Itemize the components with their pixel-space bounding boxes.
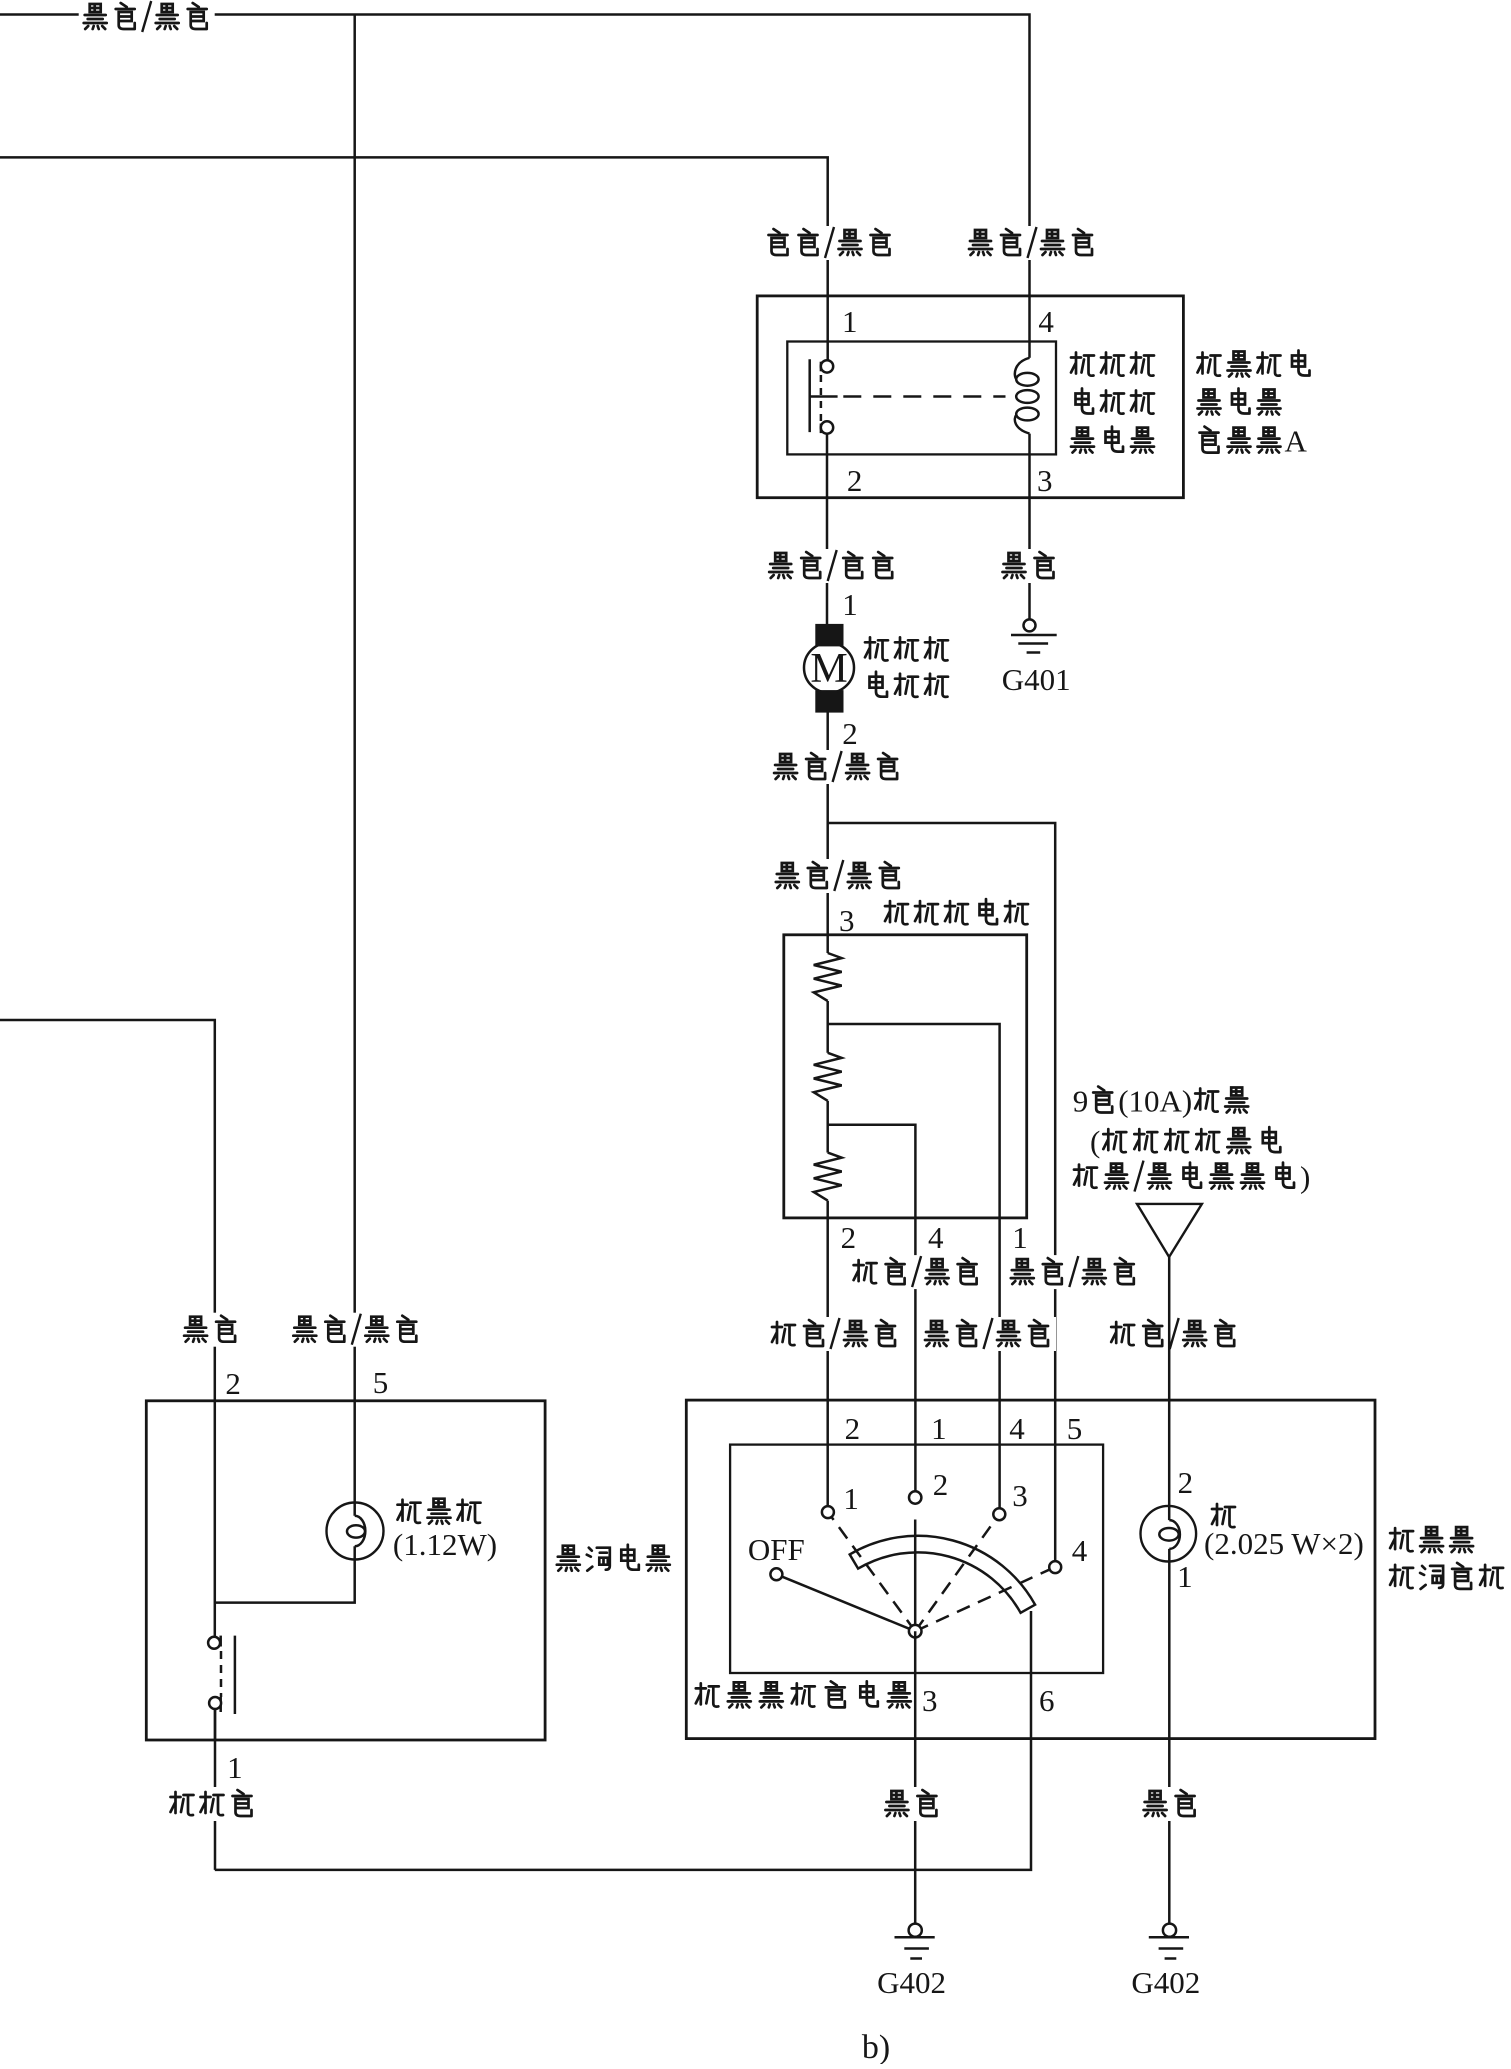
label 黑色/蓝色 — [964, 226, 1100, 260]
rotary wiper arc band — [850, 1536, 1035, 1613]
wire relay pin 4 to coil — [1028, 296, 1031, 358]
wire lamp to ground — [1168, 1549, 1171, 1924]
relay armature T bar — [810, 395, 838, 398]
dashed wiper to contact 3 — [915, 1514, 999, 1631]
label 蓝色/黑色 (motor out) — [769, 750, 905, 784]
dashed wiper to contact 1 — [828, 1512, 915, 1631]
relay contact upper circle — [821, 360, 833, 372]
ground G401 — [1024, 619, 1036, 631]
svg-text:2: 2 — [842, 716, 858, 751]
svg-text:2: 2 — [841, 1220, 857, 1255]
svg-text:3: 3 — [1012, 1478, 1027, 1513]
wire relay pin 1 to contact — [826, 296, 829, 360]
blower motor M1 circle — [804, 643, 854, 693]
svg-text:2: 2 — [933, 1467, 949, 1502]
label 指示灯 — [398, 1500, 421, 1523]
relay fixed bar — [808, 359, 811, 432]
svg-text:6: 6 — [1039, 1683, 1055, 1718]
label 鼓风机电阻 (resistor title) — [885, 901, 908, 924]
heater fan switch box 加热器风扇开关 — [730, 1445, 1103, 1673]
switch contact 1 circle — [822, 1506, 834, 1518]
wire A/C pin 1 down — [214, 1709, 217, 1870]
wire motor to branch and resistor pin 3 — [826, 712, 829, 953]
svg-text:4: 4 — [1038, 304, 1054, 339]
relay contact lower circle — [821, 421, 833, 433]
label 黑色/黄色 (A/C pin5) — [288, 1313, 424, 1347]
blower motor M1 brush top — [816, 624, 843, 646]
svg-text:5: 5 — [1067, 1411, 1083, 1446]
resistor R2 — [814, 1053, 842, 1101]
svg-text:1: 1 — [1177, 1559, 1193, 1594]
wire 白色/蓝色 feed horizontal — [0, 157, 828, 296]
svg-text:3: 3 — [1037, 463, 1053, 498]
svg-text:3: 3 — [839, 903, 855, 938]
label 白色/蓝色 — [762, 226, 898, 260]
heater control panel box 加热器控制面板 — [686, 1400, 1375, 1739]
A/C switch contact upper circle — [208, 1637, 220, 1649]
label 黄色/绿色 — [920, 1317, 1056, 1351]
fuse F9 triangle — [1137, 1204, 1202, 1257]
svg-text:4: 4 — [928, 1220, 944, 1255]
svg-text:(: ( — [1090, 1124, 1100, 1159]
wire 蓝色 feed horizontal to A/C switch pin 2 — [0, 1020, 215, 1637]
label 熔丝/继电器盒中) — [1074, 1165, 1097, 1188]
dashed wiper to contact 4 — [915, 1567, 1055, 1631]
svg-text:(1.12W): (1.12W) — [393, 1527, 497, 1562]
wire 黑色/黄色 riser to A/C switch pin 5 — [353, 15, 356, 1516]
svg-text:1: 1 — [227, 1750, 243, 1785]
svg-text:OFF: OFF — [748, 1532, 805, 1567]
switch contact 4 circle — [1049, 1561, 1061, 1573]
ground G402 left — [909, 1924, 922, 1937]
wire branch 蓝色/黑色 to heater switch pin 5 — [828, 823, 1055, 1561]
wire tap after R2 to pin 4 and switch contact 2 — [828, 1125, 916, 1492]
label 黑色 (lamp return) — [1139, 1787, 1203, 1821]
wire relay pin 3 down to ground — [1028, 434, 1031, 620]
svg-text:M: M — [810, 646, 847, 692]
wire switch common pin 3 to ground — [914, 1631, 917, 1923]
wire lower contact to box bottom — [214, 1709, 217, 1740]
label 蓝色/黑色 (bypass) — [1006, 1255, 1142, 1289]
svg-text:1: 1 — [842, 587, 858, 622]
wire lamp to blue wire junction — [215, 1546, 355, 1602]
label 鼓风机电动机 (motor name) — [865, 637, 888, 660]
svg-text:2: 2 — [1178, 1465, 1194, 1500]
svg-text:): ) — [1300, 1160, 1310, 1195]
svg-text:1: 1 — [843, 1481, 859, 1516]
relay contact dashed link — [820, 362, 823, 372]
wire resistor pin 2 down to switch contact 1 — [826, 1201, 829, 1507]
solid wiper to OFF contact — [776, 1574, 915, 1631]
wire arc end pin 6 down and across to A/C pin 1 — [215, 1611, 1031, 1870]
A/C switch contact lower circle — [209, 1697, 221, 1709]
label 黑色 (switch common) — [880, 1787, 944, 1821]
A/C switch fixed bar — [234, 1636, 237, 1714]
svg-text:G402: G402 — [1131, 1965, 1200, 2000]
switch contact 3 circle — [993, 1508, 1005, 1520]
label 黑色 (relay pin3) — [998, 549, 1062, 583]
svg-text:1: 1 — [931, 1411, 947, 1446]
label 蓝色/白色 — [764, 549, 900, 583]
resistor box 鼓风机电阻 — [784, 935, 1027, 1218]
svg-text:(10A): (10A) — [1118, 1084, 1192, 1119]
label 仪表板下继电器固定架A — [1198, 353, 1221, 376]
label 空调开关 — [557, 1546, 580, 1571]
relay coil — [1015, 358, 1030, 380]
svg-text:b): b) — [862, 2029, 890, 2064]
label 红色/蓝色 — [849, 1255, 985, 1289]
svg-text:4: 4 — [1072, 1533, 1088, 1568]
svg-text:1: 1 — [1012, 1220, 1028, 1255]
lamp L2 灯 circle — [1141, 1506, 1197, 1562]
switch pivot circle — [909, 1625, 922, 1638]
label 鼓风机电动机继电器 (relay name) — [1071, 353, 1094, 376]
svg-text:1: 1 — [842, 304, 858, 339]
resistor R3 — [814, 1153, 842, 1201]
resistor R1 — [814, 953, 842, 1001]
indicator lamp L1 filament — [355, 1516, 366, 1547]
label 红色/黄色 — [767, 1317, 903, 1351]
ground G402 right — [1163, 1924, 1176, 1937]
wire relay pin 2 down to motor — [826, 434, 829, 625]
switch OFF contact circle — [770, 1568, 782, 1580]
svg-text:G401: G401 — [1002, 662, 1071, 697]
wire tap after R1 to pin 1 and switch contact 3 — [828, 1024, 1000, 1508]
svg-text:3: 3 — [922, 1683, 938, 1718]
lamp L2 filament — [1169, 1520, 1180, 1549]
relay dashed actuation line — [843, 395, 1005, 398]
wire fuse to lamp — [1168, 1257, 1171, 1520]
wire pivot link under contact 2 — [914, 1520, 917, 1632]
label 蓝色/黑色 (resistor in) — [771, 859, 907, 893]
A/C switch contact ticks and dashed link — [219, 1636, 222, 1647]
svg-text:G402: G402 — [877, 1965, 946, 2000]
label 蓝色 — [179, 1313, 243, 1347]
svg-text:9: 9 — [1073, 1084, 1089, 1119]
svg-text:5: 5 — [373, 1365, 389, 1400]
wire R1-R2 — [826, 1001, 829, 1053]
wire 黑色/黄色 top feed horizontal — [0, 15, 1030, 297]
relay U1 鼓风机电动机继电器 inner box — [787, 342, 1056, 455]
svg-text:4: 4 — [1009, 1411, 1025, 1446]
wire R2-R3 — [826, 1101, 829, 1153]
blower motor M1 brush bottom — [816, 691, 843, 713]
svg-text:(2.025 W×2): (2.025 W×2) — [1204, 1526, 1364, 1561]
label 加热器风扇开关 — [696, 1683, 719, 1706]
A/C switch box 空调开关 — [146, 1401, 545, 1740]
switch contact 2 circle — [909, 1491, 921, 1503]
svg-text:A: A — [1285, 424, 1308, 459]
label 加热器控制面板 — [1390, 1528, 1413, 1551]
svg-text:2: 2 — [847, 463, 863, 498]
label 灯 — [1212, 1504, 1235, 1527]
label 粉红色 — [166, 1787, 260, 1821]
svg-text:2: 2 — [845, 1411, 861, 1446]
indicator lamp L1 circle — [327, 1503, 384, 1560]
relay box 仪表板下继电器固定架A outer — [757, 296, 1183, 498]
svg-text:2: 2 — [225, 1366, 241, 1401]
label 黑色/黄色 top feed — [79, 0, 215, 34]
label 红色/黑色 — [1106, 1317, 1242, 1351]
